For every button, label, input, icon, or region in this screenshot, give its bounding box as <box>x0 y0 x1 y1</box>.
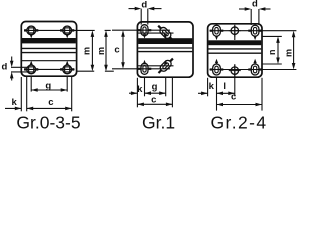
svg-text:n: n <box>267 50 277 56</box>
slot C3 top-right <box>248 25 262 36</box>
svg-text:d: d <box>252 0 258 10</box>
dim d plate1 dimension line <box>11 57 13 65</box>
svg-text:g: g <box>152 81 158 92</box>
slot C6 bottom-right <box>248 64 262 75</box>
slot C4 bottom-left <box>210 64 224 75</box>
svg-text:d: d <box>141 0 147 11</box>
slot C1 top-left <box>210 25 224 36</box>
dim k plate3 <box>198 92 208 94</box>
plate2 bottom extension lines <box>136 78 138 108</box>
plate 1 middle band <box>22 38 76 61</box>
plate 3 middle band <box>208 40 261 53</box>
svg-text:c: c <box>48 97 53 108</box>
m dim bottom extension line plate1 <box>77 70 95 72</box>
plate2 bottom slot centerline + left extension <box>112 68 170 70</box>
plate3 top centerline right extension <box>262 30 296 32</box>
dim k plate2 <box>129 92 137 94</box>
plate3 top row centerline <box>210 30 259 32</box>
svg-text:k: k <box>209 81 215 92</box>
plate3 bottom row centerline <box>210 69 259 71</box>
dim c plate2 (left vertical) <box>122 33 124 66</box>
dim d plate2 dimension line <box>129 8 139 10</box>
plate2 top diagonal centerline horizontal <box>138 32 174 34</box>
plate1 bottom extension lines <box>20 77 22 111</box>
plate1 top centerline right extension <box>77 29 95 31</box>
svg-text:Gr.1: Gr.1 <box>142 113 175 133</box>
dim g plate2 <box>145 92 166 94</box>
svg-text:c: c <box>114 44 119 55</box>
svg-text:k: k <box>137 84 143 95</box>
dim d plate3 extension lines <box>250 9 252 25</box>
hole C2 top-middle circle <box>229 25 241 37</box>
svg-text:d: d <box>1 62 7 73</box>
dim c plate3 <box>217 104 263 106</box>
svg-text:m: m <box>96 47 106 55</box>
svg-text:Gr.2-4: Gr.2-4 <box>210 113 267 133</box>
hole A3 bottom-left <box>24 65 38 74</box>
dim c plate1 <box>27 107 72 109</box>
dim c plate2 (bottom) <box>137 103 172 105</box>
plate3 bottom centerline right extension <box>262 69 296 71</box>
svg-text:m: m <box>81 47 91 55</box>
svg-text:g: g <box>45 81 51 92</box>
svg-text:c: c <box>151 94 156 105</box>
plate 2 outline <box>137 22 193 77</box>
plate3 bottom extension lines <box>207 78 209 97</box>
dim d upper arrow <box>10 61 14 68</box>
arrow stubs onto band, plate2 <box>143 34 146 39</box>
dim l plate3 <box>217 92 235 94</box>
plate3 circle hole vertical lines <box>234 25 236 40</box>
hole A1 top-left <box>24 26 38 35</box>
plate 1 outline <box>21 22 76 77</box>
svg-text:Gr.0-3-5: Gr.0-3-5 <box>16 113 80 133</box>
slot B1 top-left vertical <box>138 25 152 36</box>
svg-text:c: c <box>231 91 236 102</box>
slot B4 bottom-right diagonal <box>156 56 175 75</box>
hole C5 bottom-middle circle <box>229 65 241 77</box>
dim d lower arrow <box>10 72 14 79</box>
slot B3 bottom-left vertical <box>138 63 152 74</box>
dim d plate1 extension lines <box>11 66 29 68</box>
n dim extension lines plate3 <box>262 35 282 37</box>
plate1 top holes centerline <box>24 29 77 31</box>
dim k plate1 <box>5 107 21 109</box>
dim n plate3 <box>277 39 279 61</box>
dim d plate3 dimension line <box>239 8 249 10</box>
dim m1 plate1 <box>91 33 93 69</box>
hole A2 top-right <box>60 26 74 35</box>
svg-text:l: l <box>223 81 226 92</box>
svg-text:k: k <box>12 97 18 108</box>
hole A4 bottom-right <box>60 65 74 74</box>
arrow stubs onto band, plate1 <box>30 34 33 39</box>
plate 3 outline <box>208 24 262 77</box>
plate 2 middle band <box>138 38 192 51</box>
dim g plate1 <box>31 89 67 91</box>
plate1 bottom holes centerline <box>24 68 75 70</box>
dim m2 plate1 <box>105 33 107 69</box>
slot B2 top-right diagonal <box>156 23 175 42</box>
plate2 top slot centerline + left extension <box>112 29 170 31</box>
arrow stubs plate3 <box>215 36 218 41</box>
plate2 bottom diagonal centerline horizontal <box>138 65 174 67</box>
dim d plate2 extension lines <box>140 9 142 25</box>
svg-text:m: m <box>283 49 293 57</box>
dim m plate3 <box>293 33 295 67</box>
